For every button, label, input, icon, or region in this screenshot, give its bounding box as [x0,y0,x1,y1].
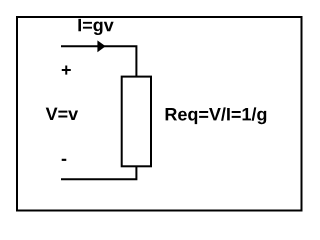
label I=gv (controlled current) [78,19,113,35]
current direction arrowhead [97,40,105,52]
resistor Req (body) [122,77,151,167]
border frame [17,17,302,211]
label - (negative terminal) [62,159,67,161]
label Req=V/I=1/g (equivalent resistance) [166,107,267,124]
label + (positive terminal) [62,65,71,74]
label V=v (port voltage) [46,108,78,120]
wire: top horizontal from + terminal into resistor top [61,46,136,76]
wire: bottom from resistor to - terminal [61,166,136,179]
